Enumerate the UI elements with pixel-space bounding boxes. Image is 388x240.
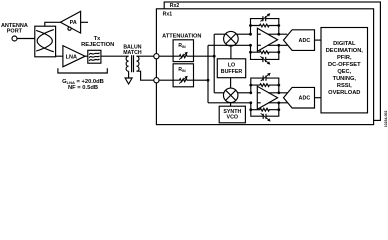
svg-text:DIGITAL: DIGITAL [333, 41, 356, 47]
svg-text:LO: LO [228, 63, 235, 69]
synth VCO box [219, 106, 245, 123]
junction dots top amp upper [249, 24, 280, 35]
wire top mixer upper input [214, 33, 225, 35]
junction dots bottom amp lower [249, 101, 280, 111]
svg-text:OVERLOAD: OVERLOAD [328, 90, 360, 96]
svg-text:PA: PA [70, 20, 77, 26]
wire bottom amp output upper to ADC [268, 92, 288, 94]
svg-text:ATTENUATION: ATTENUATION [162, 34, 201, 40]
wire pin P to attenuator [159, 55, 173, 57]
wire attenuator N to bus [194, 79, 209, 81]
svg-text:REJECTION: REJECTION [81, 42, 114, 48]
digital processing block [321, 28, 368, 113]
svg-text:BUFFER: BUFFER [221, 69, 243, 75]
bottom amp feedback upper vertical left [250, 85, 252, 93]
bottom amp feedback lower resistor line [251, 108, 279, 111]
attenuator box top [173, 40, 193, 62]
svg-text:VCO: VCO [227, 114, 238, 120]
mixer bottom X [226, 90, 236, 100]
svg-text:QEC,: QEC, [337, 69, 351, 75]
box Rx2 [164, 2, 380, 120]
top amp feedback lower vertical left [250, 45, 252, 52]
label digital block [326, 41, 364, 96]
svg-text:LNA: LNA [66, 55, 77, 61]
mixer bottom [223, 88, 238, 103]
top amp feedback upper cap arrow [260, 13, 270, 21]
wire attenuator P to bus [194, 55, 215, 57]
top amp feedback lower capacitor plates [263, 57, 266, 62]
wire top ADC to digital [315, 39, 322, 41]
balun secondary winding [137, 56, 140, 71]
mixer top [224, 31, 239, 46]
svg-text:PORT: PORT [7, 29, 23, 35]
ADC bottom [284, 87, 315, 108]
ADC top [284, 30, 315, 51]
wire antenna to duplexer [17, 38, 35, 40]
mixer top X [226, 34, 236, 44]
wire Tx rejection to balun [101, 55, 129, 57]
LO buffer [217, 59, 245, 78]
wire LO buffer to top mixer [230, 46, 232, 59]
top amp feedback lower vertical right [278, 45, 280, 52]
resistor RIN top [173, 52, 193, 60]
pin Rx1 input N [154, 78, 159, 83]
wire balun secondary top to pin [137, 55, 155, 57]
junction bus N [207, 79, 210, 82]
gain bracket under LNA [58, 68, 107, 73]
top amp feedback upper vertical left [250, 26, 252, 35]
wire balun primary to ground [128, 71, 130, 78]
bottom amp feedback upper capacitor loop [251, 78, 279, 85]
svg-text:DC-OFFSET: DC-OFFSET [328, 62, 361, 68]
op-amp bottom U2 [257, 86, 277, 109]
wire bottom row lower line [208, 102, 251, 104]
top amp feedback upper resistor line [251, 24, 279, 27]
wire duplexer to PA [45, 22, 61, 26]
PA amplifier [60, 11, 80, 33]
junction dots bottom amp upper [249, 84, 280, 95]
svg-text:DECIMATION,: DECIMATION, [326, 48, 364, 54]
wire LO buffer to bottom mixer [230, 78, 232, 88]
Tx rejection filter [88, 50, 101, 63]
top amp feedback upper vertical right [278, 26, 280, 35]
wire top mixer upper output [237, 33, 251, 35]
ground [125, 78, 132, 84]
wire LNA to Tx rejection filter [85, 55, 88, 57]
balun transformer primary winding [126, 56, 129, 71]
bottom amp feedback lower capacitor loop [251, 110, 279, 117]
wire top amp output lower to ADC [268, 44, 288, 46]
wire top amp output upper to ADC [268, 33, 288, 35]
wire top row lower line [208, 44, 251, 46]
top amp feedback lower resistor line [251, 51, 279, 54]
top amp feedback upper capacitor plates [263, 16, 266, 21]
top amp feedback upper capacitor loop [251, 19, 279, 26]
svg-text:Rx1: Rx1 [163, 12, 173, 18]
wire balun secondary bottom to pin [137, 71, 155, 80]
bottom amp feedback lower vertical right [278, 103, 280, 110]
wire bottom mixer upper input [214, 92, 224, 94]
svg-text:TUNING,: TUNING, [333, 76, 357, 82]
top amp feedback lower cap arrow [260, 56, 270, 64]
svg-text:ADC: ADC [299, 96, 311, 102]
svg-text:ADC: ADC [299, 38, 311, 44]
bus N vertical [207, 45, 209, 103]
resistor RIN bottom [173, 76, 193, 84]
attenuator box bottom [173, 64, 193, 87]
top amp feedback lower capacitor loop [251, 52, 279, 59]
bottom amp feedback upper vertical right [278, 85, 280, 93]
antenna port terminal [12, 36, 17, 41]
wire bottom ADC to digital [315, 97, 322, 99]
bottom amp feedback lower capacitor plates [263, 114, 266, 119]
wire bottom mixer upper output [237, 92, 250, 94]
svg-text:MATCH: MATCH [123, 50, 142, 56]
junction dots top amp lower [249, 44, 280, 54]
wire duplexer to LNA [56, 55, 63, 57]
bottom amp feedback upper cap arrow [261, 73, 271, 81]
duplexer filter box [35, 26, 56, 57]
box Rx1 [156, 9, 373, 125]
svg-text:PFIR,: PFIR, [337, 55, 352, 61]
bus P vertical [213, 34, 215, 93]
balun core [131, 55, 133, 72]
svg-text:10234-002: 10234-002 [384, 111, 388, 128]
bottom amp feedback upper capacitor plates [263, 76, 266, 81]
bottom amp feedback upper resistor line [251, 84, 279, 87]
bottom amp feedback lower cap arrow [261, 113, 271, 121]
wire bottom mixer to synth [230, 103, 232, 107]
wire pin N to attenuator [159, 79, 173, 81]
junction bus P [213, 55, 216, 58]
LNA amplifier [63, 46, 85, 67]
pin Rx1 input P [154, 54, 159, 59]
bottom amp feedback lower vertical left [250, 103, 252, 110]
op-amp top U1 [257, 28, 277, 51]
svg-text:Rx2: Rx2 [170, 3, 180, 9]
wire PA input stub [81, 21, 88, 23]
wire bottom amp output lower to ADC [268, 102, 288, 104]
svg-text:RSSI,: RSSI, [337, 83, 352, 89]
svg-text:NF = 0.5dB: NF = 0.5dB [68, 85, 98, 91]
